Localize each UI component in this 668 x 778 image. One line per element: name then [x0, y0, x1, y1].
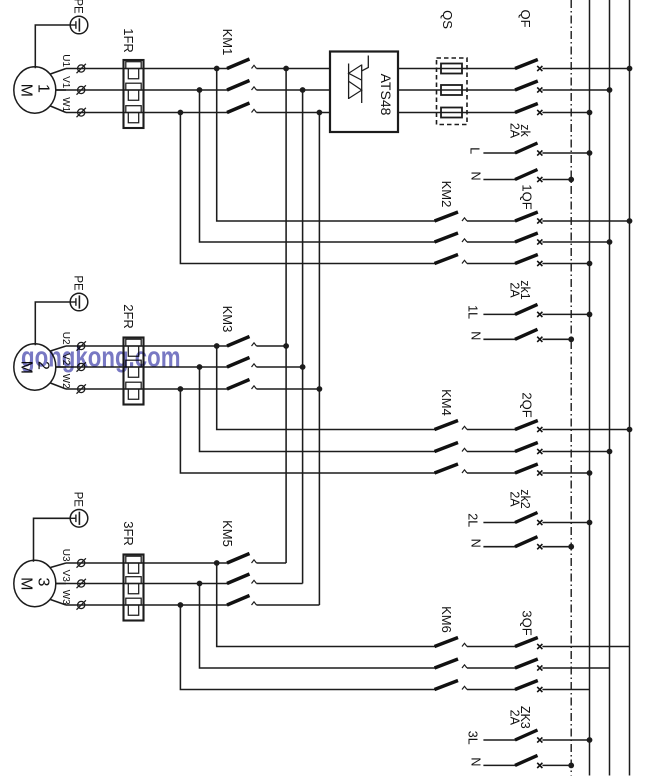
wire PE to motor 1 frame	[35, 25, 70, 68]
junction zk2 L on bus	[587, 520, 593, 526]
motor 2 lead V	[56, 366, 66, 368]
svg-text:3QF: 3QF	[519, 610, 534, 635]
wire motor 1 phase U1 to KM	[66, 68, 228, 70]
junction KM5 pole 2 motor side	[197, 581, 203, 587]
svg-text:W2: W2	[60, 374, 71, 389]
svg-text:N: N	[468, 757, 482, 766]
wire bypass group 1 pole 2	[200, 90, 436, 242]
contactor KM6	[435, 638, 459, 647]
wire ZK3 N to neutral bus	[542, 764, 571, 766]
svg-text:1FR: 1FR	[121, 28, 136, 53]
svg-text:KM4: KM4	[439, 389, 454, 416]
contactor KM3	[227, 337, 250, 347]
svg-text:QS: QS	[440, 10, 455, 29]
wire KM3 pole 3 to starter feed	[257, 388, 320, 390]
junction zk N on neutral bus	[568, 177, 574, 183]
svg-text:QF: QF	[518, 9, 533, 27]
bus N (neutral, dash-dot)	[570, 0, 572, 776]
terminal U3	[78, 559, 85, 566]
wire bypass group 3 pole 1	[217, 563, 435, 647]
wire bypass group 2 pole 3	[180, 389, 435, 473]
wire 2QF pole 2 to bus	[542, 451, 609, 453]
PE earth terminal (motor 1)	[70, 16, 88, 34]
terminal U2	[78, 342, 85, 349]
fuse-disconnect QS	[437, 58, 468, 125]
junction starter feed at KM3 pole 2	[300, 364, 306, 370]
wire KM1 pole 3 to ATS48	[257, 112, 331, 114]
wire QF pole 1 to bus	[542, 68, 629, 70]
svg-text:KM3: KM3	[220, 306, 235, 333]
svg-text:2QF: 2QF	[519, 392, 534, 417]
wire 3QF pole 3 to bus	[542, 689, 589, 691]
junction starter feed at KM3 pole 3	[317, 386, 323, 392]
terminal W1	[78, 109, 85, 116]
wire starter feed vertical 3	[318, 113, 320, 606]
wire bypass group 3 pole 3	[180, 605, 435, 690]
wire KM1 pole 1 to ATS48	[257, 68, 331, 70]
circuit breaker 2QF	[467, 429, 516, 431]
svg-text:gongkong.com: gongkong.com	[21, 342, 181, 374]
junction zk1 N on neutral bus	[568, 336, 574, 342]
circuit breaker 3QF	[467, 646, 516, 648]
wire bypass group 1 pole 1	[217, 69, 435, 222]
svg-text:KM6: KM6	[439, 606, 454, 633]
junction zk L on bus	[587, 150, 593, 156]
wire bypass group 3 pole 2	[200, 584, 436, 669]
svg-text:PE: PE	[71, 275, 83, 291]
wire motor 1 phase V1 to KM	[57, 89, 228, 91]
svg-text:KM1: KM1	[220, 29, 235, 56]
wire zk2 L to bus	[542, 522, 589, 524]
motor 1 lead V	[56, 89, 66, 91]
wire QF pole 3 to bus	[542, 112, 589, 114]
wire bypass group 1 pole 3	[180, 113, 435, 264]
wire ZK3 L to bus	[542, 739, 589, 741]
svg-text:2A: 2A	[508, 710, 522, 726]
motor M1	[14, 67, 56, 113]
svg-text:N: N	[468, 331, 482, 340]
terminal V1	[78, 86, 85, 93]
svg-text:ATS48: ATS48	[378, 74, 394, 116]
terminal W2	[78, 385, 85, 392]
wire bypass group 2 pole 2	[200, 367, 436, 452]
PE earth terminal (motor 3)	[70, 510, 88, 528]
fuse switch zk2 neutral pole	[483, 546, 515, 548]
thermal overload relay 2FR	[124, 338, 144, 405]
motor 3 lead V	[56, 583, 66, 585]
wire KM5 pole 3 to starter feed	[257, 604, 320, 606]
motor 3 lead W	[50, 600, 66, 606]
svg-text:3FR: 3FR	[121, 521, 136, 546]
svg-text:W3: W3	[60, 590, 71, 605]
junction KM3 pole 3 motor side	[178, 386, 184, 392]
junction ATS48 feed tap 1	[283, 66, 289, 72]
svg-text:KM5: KM5	[220, 520, 235, 547]
fuse switch zk1 neutral pole	[483, 338, 515, 340]
junction 2QF pole 3 on bus	[587, 470, 593, 476]
svg-text:V3: V3	[60, 570, 71, 583]
wire zk L to bus	[542, 152, 589, 154]
thermal overload relay 3FR	[124, 555, 144, 621]
wire motor 3 phase U3 to KM	[66, 562, 228, 564]
wire starter feed vertical 2	[302, 90, 304, 584]
wire motor 1 phase W1 to KM	[66, 112, 228, 114]
wire KM3 pole 2 to starter feed	[257, 366, 303, 368]
svg-text:1: 1	[34, 84, 51, 93]
wire ATS48 to QF	[398, 68, 516, 70]
motor 3 lead U	[50, 563, 66, 568]
junction 1QF pole 1 on bus	[627, 218, 633, 224]
terminal V3	[78, 580, 85, 587]
svg-text:2FR: 2FR	[121, 304, 136, 329]
wire KM5 pole 1 to starter feed	[257, 562, 287, 564]
svg-text:PE: PE	[71, 0, 83, 14]
svg-text:U1: U1	[60, 54, 71, 67]
junction zk1 L on bus	[587, 312, 593, 318]
wire motor 3 phase V3 to KM	[57, 583, 228, 585]
wire motor 2 phase W2 to KM	[66, 388, 228, 390]
junction ATS48 feed tap 3	[317, 110, 323, 116]
wire zk2 N to neutral bus	[542, 546, 571, 548]
contactor KM2	[435, 212, 459, 221]
bus L3	[589, 0, 591, 776]
wire PE to motor 2 frame	[35, 302, 70, 345]
junction ATS48 feed tap 2	[300, 87, 306, 93]
junction QF pole 3 on bus	[587, 110, 593, 116]
junction KM1 pole 3 motor side	[178, 110, 184, 116]
junction KM1 pole 1 motor side	[214, 66, 220, 72]
svg-text:KM2: KM2	[439, 181, 454, 208]
svg-text:2L: 2L	[465, 513, 479, 527]
fuse switch ZK3 line pole	[483, 739, 515, 741]
junction KM5 pole 1 motor side	[214, 560, 220, 566]
wire motor 2 phase U2 to KM	[66, 345, 228, 347]
svg-text:N: N	[468, 539, 482, 548]
terminal U1	[78, 65, 85, 72]
wire motor 3 phase W3 to KM	[66, 604, 228, 606]
soft starter U1 ATS48	[330, 52, 398, 133]
bus L1	[629, 0, 631, 776]
svg-text:3L: 3L	[465, 731, 479, 745]
svg-text:L: L	[467, 147, 481, 154]
wire 1QF pole 3 to bus	[542, 263, 589, 265]
motor M3	[14, 560, 56, 606]
svg-text:2A: 2A	[508, 491, 522, 507]
wire bypass group 2 pole 1	[217, 346, 435, 430]
junction 2QF pole 2 on bus	[607, 449, 613, 455]
contactor KM4	[435, 421, 459, 430]
svg-text:V1: V1	[60, 76, 71, 89]
wire 1QF pole 1 to bus	[542, 220, 629, 222]
svg-text:M: M	[18, 84, 35, 97]
svg-text:2A: 2A	[508, 282, 522, 298]
fuse switch zk2 line pole	[483, 522, 515, 524]
motor 2 lead U	[50, 346, 66, 351]
junction 1QF pole 2 on bus	[607, 239, 613, 245]
svg-text:PE: PE	[71, 492, 83, 508]
fuse switch zk neutral pole	[483, 179, 515, 181]
circuit breaker QF	[515, 60, 538, 69]
wire zk1 L to bus	[542, 313, 589, 315]
wire 1QF pole 2 to bus	[542, 241, 609, 243]
junction 1QF pole 3 on bus	[587, 261, 593, 267]
junction KM5 pole 3 motor side	[178, 602, 184, 608]
terminal V2	[78, 363, 85, 370]
wire KM5 pole 2 to starter feed	[257, 583, 303, 585]
contactor KM1	[227, 59, 250, 69]
svg-text:M: M	[18, 577, 35, 590]
PE earth terminal (motor 2)	[70, 293, 88, 311]
wire 2QF pole 1 to bus	[542, 429, 629, 431]
svg-text:3: 3	[34, 578, 51, 587]
junction KM1 pole 2 motor side	[197, 87, 203, 93]
bus L2	[609, 0, 611, 776]
wire zk1 N to neutral bus	[542, 338, 571, 340]
junction ZK3 N on neutral bus	[568, 763, 574, 769]
svg-text:1QF: 1QF	[519, 184, 534, 209]
wire 3QF pole 2 to bus	[542, 667, 609, 669]
svg-text:2A: 2A	[508, 123, 522, 139]
thermal overload relay 1FR	[124, 60, 144, 128]
junction zk2 N on neutral bus	[568, 544, 574, 550]
wire 3QF pole 1 to bus	[542, 646, 629, 648]
svg-text:W1: W1	[60, 97, 71, 112]
motor 1 lead U	[50, 69, 66, 75]
junction KM3 pole 1 motor side	[214, 343, 220, 349]
junction QF pole 2 on bus	[607, 87, 613, 93]
contactor KM5	[227, 554, 250, 564]
wire starter feed vertical 1	[285, 69, 287, 564]
motor M2	[14, 344, 56, 390]
terminal W3	[78, 601, 85, 608]
svg-text:1L: 1L	[465, 305, 479, 319]
wire KM1 pole 2 to ATS48	[257, 89, 331, 91]
fuse switch ZK3 neutral pole	[483, 764, 515, 766]
junction KM3 pole 2 motor side	[197, 364, 203, 370]
junction ZK3 L on bus	[587, 737, 593, 743]
fuse switch zk line pole	[483, 152, 515, 154]
wire KM3 pole 1 to starter feed	[257, 345, 287, 347]
wire QF pole 2 to bus	[542, 89, 609, 91]
wire 2QF pole 3 to bus	[542, 472, 589, 474]
svg-text:U3: U3	[60, 549, 71, 562]
motor 1 lead W	[50, 106, 66, 113]
fuse switch zk1 line pole	[483, 313, 515, 315]
wire motor 2 phase V2 to KM	[57, 366, 228, 368]
wire zk N to neutral bus	[542, 179, 571, 181]
junction QF pole 1 on bus	[627, 66, 633, 72]
junction 2QF pole 1 on bus	[627, 427, 633, 433]
junction starter feed at KM3 pole 1	[283, 343, 289, 349]
circuit breaker 1QF	[467, 220, 516, 222]
motor 2 lead W	[50, 383, 66, 389]
svg-text:N: N	[468, 171, 482, 180]
wire PE to motor 3 frame	[34, 518, 71, 561]
